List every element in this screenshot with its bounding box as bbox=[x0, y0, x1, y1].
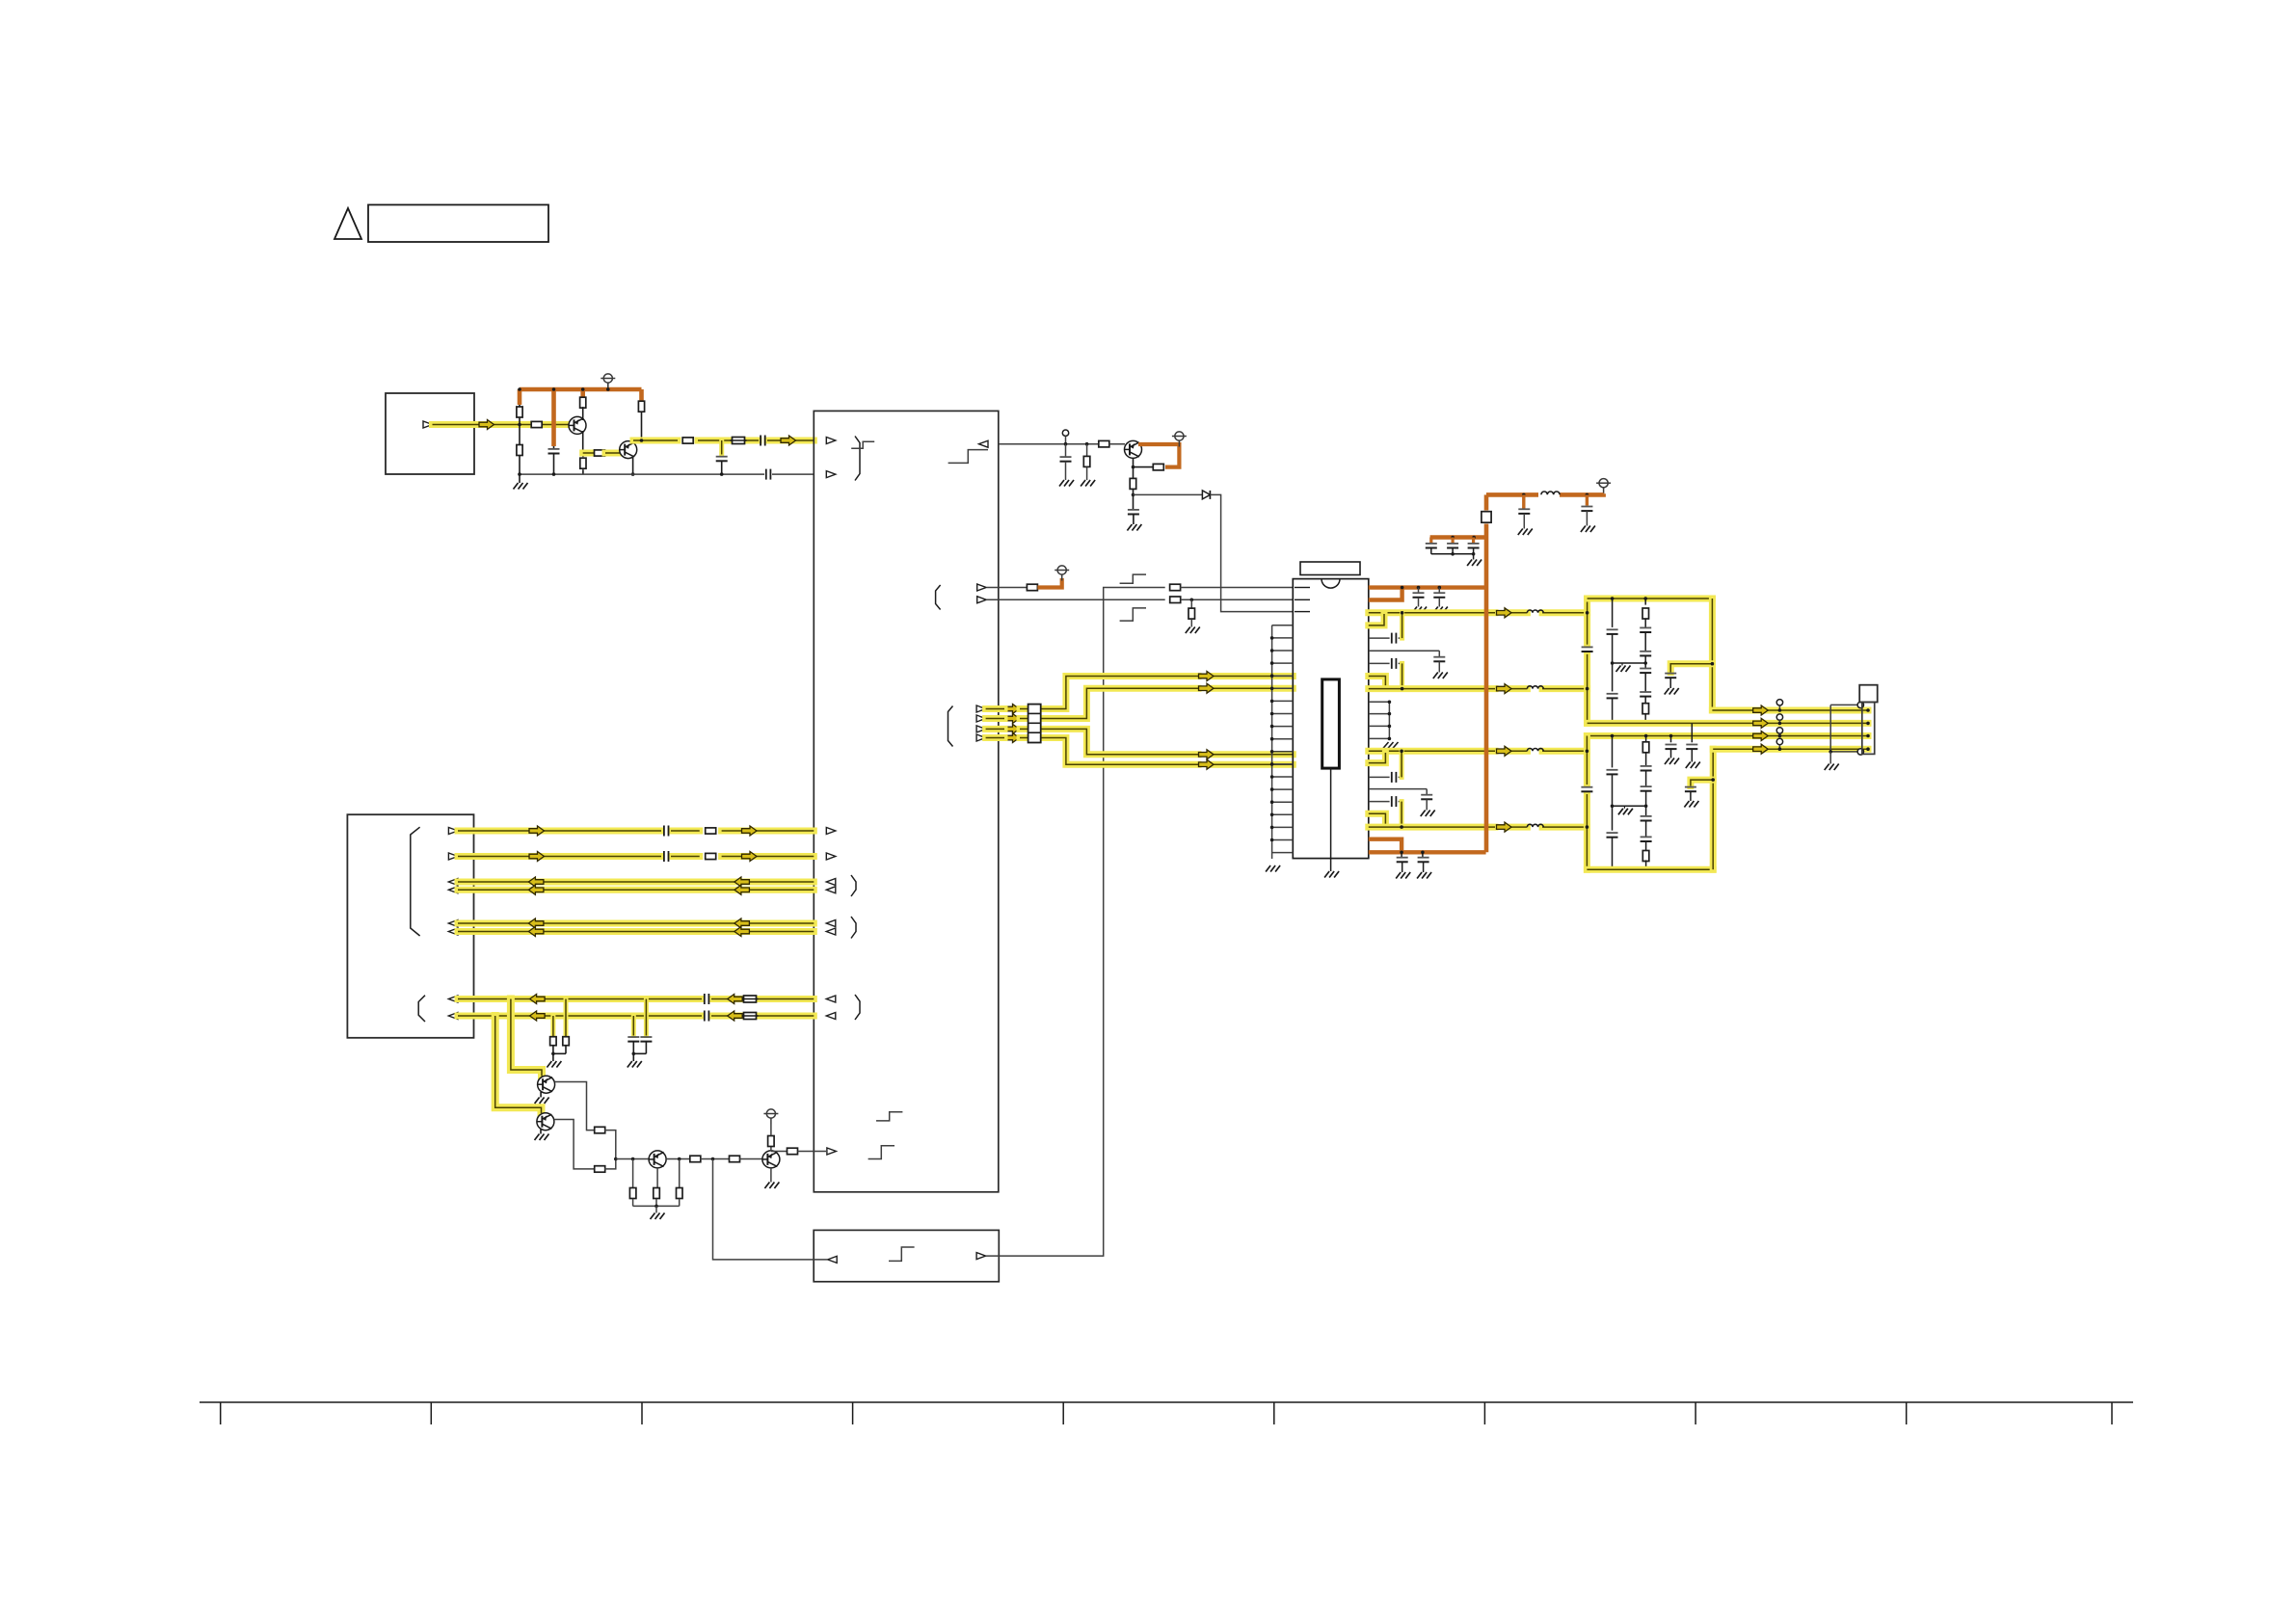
signal-flow arrow row3 a bbox=[528, 877, 544, 887]
node: row7 taps bbox=[509, 998, 648, 1001]
wire: M1 ctrl to Q3 base bbox=[999, 443, 1099, 445]
capacitor C (line2 shunt) bbox=[1686, 723, 1700, 768]
wire: Q2 emitter to ground bus bbox=[632, 458, 634, 474]
power flag P3 (Q3) bbox=[1172, 432, 1187, 447]
signal-flow arrow d4 at IC bbox=[1199, 759, 1215, 769]
signal-flow arrow row6 b bbox=[734, 927, 750, 937]
wire: J1 row7 (yellow) bbox=[458, 996, 814, 1002]
wire: detector to diode bbox=[1134, 493, 1203, 495]
pin: M1 d2 bbox=[976, 715, 986, 722]
signal-flow arrow out1 bbox=[1497, 608, 1512, 618]
capacitor C (row8 shunt) bbox=[627, 1016, 639, 1053]
ground: ctrl shunt cap bbox=[1059, 480, 1074, 487]
terminal circles J2 bbox=[1857, 702, 1863, 755]
IC right shorted pin group + bus bbox=[1369, 701, 1391, 741]
resistor R2 (pull-down) bbox=[517, 425, 522, 475]
ground: resistor bus bbox=[651, 1206, 665, 1219]
pin: M1 bottom input bbox=[827, 1148, 837, 1155]
jumper circle line3 bbox=[1776, 728, 1782, 738]
output line1 (yellow) bbox=[1712, 707, 1868, 714]
signal-flow arrow row4 b bbox=[734, 885, 750, 894]
resistor R (M1 input series) bbox=[788, 1148, 798, 1155]
wire: row8 tap to Q5 (yellow) bbox=[495, 1016, 542, 1113]
power flag P4 (status1) bbox=[1055, 566, 1069, 581]
signal-flow arrow d1 at IC bbox=[1199, 672, 1215, 681]
note box (blank label) bbox=[368, 205, 548, 243]
jumper circle line1 bbox=[1776, 700, 1782, 712]
wire: Q6 collector right bbox=[666, 1158, 690, 1160]
resistor R (row8 shunt) bbox=[550, 1016, 557, 1053]
waveform step (status2) bbox=[1120, 608, 1146, 621]
wire: J1 row5 (yellow) bbox=[458, 920, 814, 927]
resistor R (Q3 feedback) bbox=[1134, 464, 1164, 470]
wire: IC pV- bottom (orange) bbox=[1369, 850, 1486, 854]
power flag P5 (main rail) bbox=[1596, 479, 1611, 494]
capacitor C (V- b) bbox=[1417, 852, 1431, 878]
capacitor C (series) row1 bbox=[664, 826, 669, 837]
capacitor C (line3 shunt) bbox=[1665, 736, 1679, 765]
ferrite bead row7 bbox=[742, 996, 759, 1002]
pin: J1 in3 bbox=[448, 920, 458, 927]
wire: Q3 collector down bbox=[1133, 458, 1135, 478]
bracket ) rows5-6 M1 bbox=[851, 917, 856, 939]
resistor R (Q3 collector) bbox=[1130, 478, 1136, 494]
bracket ) rows3-4 M1 bbox=[851, 875, 856, 896]
waveform step (status1) bbox=[1120, 574, 1146, 583]
capacitor C (rail b) bbox=[1581, 494, 1595, 532]
wire: IC p8 L to out2 (yellow) bbox=[1369, 677, 1386, 688]
transistor Q5 bbox=[537, 1113, 554, 1131]
wire: d1 to IC (yellow) bbox=[986, 677, 1294, 709]
capacitor C4 (ground-return series) bbox=[766, 469, 771, 480]
capacitor C (V- a) bbox=[1396, 852, 1410, 878]
signal-flow arrow d2 at IC bbox=[1199, 683, 1215, 693]
resistor R (interstage a) bbox=[690, 1156, 701, 1162]
wire: IC p2 V+ L (orange) bbox=[1369, 589, 1402, 600]
node: branch taps bbox=[1451, 536, 1476, 540]
pin: M1 ctrl out (row 460.7) bbox=[979, 440, 989, 447]
IC U1 body bbox=[1293, 579, 1369, 859]
pin: M1 status1 (row 609.5) bbox=[977, 584, 987, 591]
pin: M1 row1 in bbox=[826, 828, 836, 835]
signal-flow arrow line2 bbox=[1753, 718, 1769, 728]
resistor R (Q7 collector) bbox=[768, 1125, 775, 1152]
signal-flow arrow on amp output bbox=[781, 436, 796, 445]
signal-flow arrow out4 bbox=[1497, 822, 1512, 832]
power flag P2 (Q7 rail) bbox=[763, 1109, 778, 1125]
wire: status1 orange tail bbox=[1037, 578, 1061, 588]
resistor R (series) row1 bbox=[706, 828, 716, 834]
wire: filter1 mid link + ground bbox=[1613, 661, 1647, 672]
pin: J1 out1 bbox=[448, 828, 458, 835]
signal-flow arrow line3 bbox=[1753, 732, 1769, 741]
wire: Q5 path to sum node bbox=[604, 1159, 616, 1169]
filter1 inner vertical B bbox=[1640, 599, 1651, 723]
connector J2 shield bracket bbox=[1829, 705, 1857, 753]
wire: interstage bbox=[700, 1158, 730, 1160]
wire: amp output (yellow) bbox=[633, 438, 814, 444]
resistor R (Q3 base) bbox=[1099, 440, 1125, 447]
node: rail-R1 bbox=[518, 387, 609, 391]
resistor R5 (Q1 emitter) bbox=[580, 453, 586, 474]
resistor R (status2) bbox=[1170, 597, 1294, 603]
filter1 bottom edge / line2 (yellow) bbox=[1588, 720, 1868, 727]
signal-flow arrow d4 bbox=[1004, 733, 1020, 743]
bracket ) at M1 rows1-2 bbox=[855, 437, 860, 481]
capacitor C (series) row2 bbox=[664, 851, 669, 862]
pin: M1 row2 in bbox=[826, 853, 836, 860]
signal-flow arrow out2 bbox=[1497, 684, 1512, 694]
capacitor C (row7 shunt) bbox=[640, 999, 652, 1054]
capacitor C (branch 1) bbox=[1426, 538, 1437, 554]
pin: J1 out2 bbox=[448, 853, 458, 860]
resistor R8 (output series) bbox=[682, 438, 693, 443]
signal-flow arrow row4 a bbox=[528, 885, 544, 894]
wire: d2 to IC (yellow) bbox=[986, 688, 1294, 718]
wire: IC p + cap to out4 bbox=[1369, 796, 1402, 826]
wire: J1 row4 (yellow) bbox=[458, 887, 814, 893]
ground: J2 shield bbox=[1825, 752, 1839, 770]
node: output filter tap bbox=[720, 439, 724, 442]
capacitor C (branch 2) bbox=[1447, 538, 1458, 554]
wire: J1 row1 to M1 (yellow) bbox=[458, 828, 814, 835]
wire+ground rows7/8 resistors bbox=[547, 1052, 566, 1068]
bracket ( M1 status pins bbox=[936, 585, 941, 610]
node: filter1 joints bbox=[1586, 597, 1694, 725]
capacitor C (series) row8 bbox=[705, 1011, 709, 1022]
wire: M1 status2 to IC bbox=[987, 599, 1165, 600]
node: Q1 emitter bias bbox=[581, 451, 585, 455]
pin: M1 d3 bbox=[976, 726, 986, 732]
wire: IC out3 (yellow) bbox=[1369, 748, 1588, 755]
wire: IC out4 (yellow) bbox=[1369, 824, 1588, 831]
wire: IC out1 (yellow) bbox=[1369, 609, 1588, 616]
node: filter1 mid bbox=[1611, 661, 1615, 665]
resistor R (shunt1) bbox=[629, 1159, 636, 1207]
pin: M1 d1 bbox=[976, 705, 986, 712]
signal-flow arrow row3 b bbox=[734, 877, 750, 887]
signal-flow arrow row8 a bbox=[530, 1011, 546, 1021]
node: Q2 emitter-gnd bbox=[631, 472, 635, 476]
pin: M1 row8 bbox=[826, 1013, 836, 1020]
wire: d3 to IC (yellow) bbox=[986, 729, 1294, 754]
wire: block A out to Q1 base (yellow) bbox=[433, 421, 571, 428]
capacitor C1 (rail decoupling) bbox=[548, 446, 560, 474]
IC U1 pin-1 notch bbox=[1322, 579, 1340, 589]
node: p5 joins out1 bbox=[1401, 611, 1404, 615]
wire: Q3 emitter orange loop bbox=[1138, 444, 1179, 467]
resistor R (interstage b) bbox=[730, 1156, 740, 1162]
inductor L4 (out4) bbox=[1527, 824, 1543, 827]
wire: J1 row8 (yellow) bbox=[458, 1013, 814, 1020]
waveform step symbol inside M1 top-left bbox=[851, 441, 874, 448]
node: res tap bbox=[1085, 442, 1089, 446]
resistor R (ctrl shunt) bbox=[1081, 444, 1095, 487]
signal-flow arrow row5 a bbox=[528, 918, 544, 928]
node: filter2 joints bbox=[1586, 734, 1673, 871]
sync box M2 (bottom) bbox=[814, 1230, 999, 1281]
bracket ( tall inside J1 bbox=[411, 827, 420, 936]
signal-flow arrow row2 left bbox=[529, 852, 545, 862]
wire: resistor bottom bus bbox=[633, 1205, 680, 1209]
wire: IC p L to out4 (yellow) bbox=[1369, 813, 1386, 826]
wire: filter2 mid link + ground bbox=[1613, 805, 1648, 815]
capacitor C (rail a) bbox=[1518, 494, 1533, 535]
signal-flow arrow row1 right bbox=[742, 826, 758, 836]
filter2 inner vertical B bbox=[1641, 736, 1652, 870]
wire: to Q7 base bbox=[739, 1158, 762, 1160]
node: filter2 branch bbox=[1711, 778, 1715, 782]
wire: Q4 collector to merge bbox=[555, 1082, 596, 1131]
wire: branch cap bus + ground bbox=[1431, 552, 1482, 566]
resistor R1 (pull-up) bbox=[517, 389, 522, 425]
signal-flow arrow row2 right bbox=[742, 852, 758, 862]
IC U1 internal stubs bbox=[1295, 588, 1310, 612]
ferrite bead FB1 on amp output bbox=[731, 438, 747, 444]
pin: M1 row5 bbox=[826, 920, 836, 927]
resistor R3 (base series) bbox=[531, 421, 542, 427]
output line4 (yellow) bbox=[1713, 746, 1868, 753]
wire: row7 tap to Q4 (yellow) bbox=[511, 999, 542, 1077]
signal-flow arrow row7 a bbox=[530, 995, 546, 1004]
filter1 left edge (yellow) bbox=[1584, 599, 1590, 723]
pin: J1 in6 bbox=[448, 1013, 458, 1020]
module box M1 bbox=[814, 411, 999, 1191]
pin: M1 row3 bbox=[826, 879, 836, 886]
wire: IC pV- L (orange) bbox=[1369, 839, 1402, 851]
transistor Q2 bbox=[620, 441, 637, 459]
filter1 right edge (yellow) bbox=[1709, 599, 1716, 710]
wire: J1 row3 (yellow) bbox=[458, 879, 814, 886]
pin: J1 in1 bbox=[448, 879, 458, 886]
wire: IC p7 + cap to out2 bbox=[1369, 658, 1402, 687]
resistor R (IC row1 series) bbox=[1170, 584, 1181, 591]
pin: M2 left bbox=[828, 1256, 838, 1263]
wire: Q5 collector to merge bbox=[554, 1120, 595, 1169]
resistor R (status2 shunt) bbox=[1186, 599, 1200, 633]
resistor R (row7 shunt) bbox=[563, 999, 570, 1054]
node: J2 pin dots bbox=[1866, 708, 1870, 751]
bracket ) rows7-8 M1 bbox=[855, 995, 860, 1020]
capacitor C (branch 3) bbox=[1468, 538, 1480, 554]
capacitor C (series) row7 bbox=[705, 994, 709, 1004]
resistor array RA1 bbox=[1028, 705, 1041, 743]
bracket ( M1 data pins bbox=[948, 706, 953, 747]
wire: resonator to ground bbox=[1324, 768, 1339, 877]
filter2 inner vertical A bbox=[1607, 736, 1618, 870]
wire: Q1 emitter to bias node bbox=[582, 431, 584, 453]
inductor L3 (out3) bbox=[1527, 749, 1543, 752]
node: p1 net joints bbox=[1401, 586, 1441, 590]
IC U1 internal element (resonator) bbox=[1322, 679, 1340, 768]
transistor Q7 bbox=[762, 1151, 780, 1168]
wire: diode to IC row3 bbox=[1210, 494, 1293, 611]
node: Q3 collector node bbox=[1132, 466, 1135, 469]
ground: Q5 emitter bbox=[535, 1130, 549, 1141]
node: Q2 collector out bbox=[640, 439, 644, 442]
node: row8 taps bbox=[494, 1014, 635, 1018]
node: filter1 branch bbox=[1711, 662, 1715, 666]
pin: M1 row6 bbox=[826, 928, 836, 935]
connector J2 body bbox=[1862, 703, 1875, 755]
warning triangle symbol bbox=[334, 208, 361, 239]
wire: rail top (orange) bbox=[1486, 493, 1604, 494]
resistor R (Q5 path) bbox=[595, 1166, 605, 1173]
signal-flow arrow line4 bbox=[1753, 744, 1769, 754]
ground: Q7 emitter bbox=[764, 1168, 779, 1188]
node: feedback tap bbox=[711, 1157, 715, 1161]
signal-flow arrow d1 bbox=[1004, 705, 1020, 714]
wire: to IC pin row1 bbox=[1180, 587, 1293, 589]
IC U1 left ground bus + pin stubs bbox=[1266, 625, 1293, 872]
node: R1/R2 divider tap bbox=[518, 423, 521, 427]
wire: IC p L to out3 (yellow) bbox=[1369, 753, 1386, 763]
node: detector node bbox=[1132, 493, 1135, 497]
pin: M1 in2 (amp return) bbox=[826, 471, 836, 478]
pin: M1 row4 bbox=[826, 887, 836, 893]
node: status2 shunt tap bbox=[1190, 599, 1194, 602]
wire: J1 row6 (yellow) bbox=[458, 928, 814, 935]
pin: M1 status2 (row 622.3) bbox=[977, 597, 987, 603]
ground: Q4 emitter bbox=[535, 1092, 549, 1104]
connector box J1 (left) bbox=[347, 814, 473, 1038]
transistor Q3 (PNP) bbox=[1125, 440, 1142, 458]
capacitor C2 (output shunt) bbox=[716, 440, 728, 474]
wire: sum node to Q6 bbox=[616, 1158, 649, 1160]
wire: J1 row2 to M1 (yellow) bbox=[458, 853, 814, 860]
wire: M1 status1 bbox=[987, 587, 1028, 589]
diode D1 bbox=[1202, 491, 1210, 499]
capacitor C (filter1 left series) bbox=[1582, 647, 1593, 652]
filter2 bottom edge (yellow) bbox=[1587, 866, 1713, 873]
capacitor C (filter2 left series) bbox=[1581, 787, 1592, 792]
wire: IC p4 L to out1 (yellow) bbox=[1369, 614, 1384, 625]
node: gnd bus joints bbox=[518, 472, 723, 476]
capacitor C (filter2 branch) bbox=[1684, 787, 1698, 808]
node: V- joints bbox=[1400, 851, 1424, 855]
wire: amp ground return bus bbox=[520, 473, 814, 475]
wire: IC out2 (yellow) bbox=[1369, 685, 1588, 692]
wire: IC p shunt cap b bbox=[1369, 789, 1435, 816]
wire: into M1 bbox=[798, 1151, 827, 1153]
connector J2 head bbox=[1859, 685, 1878, 703]
resistor R (Q4 path) bbox=[595, 1127, 605, 1133]
pin: M1 row7 bbox=[826, 996, 836, 1002]
ground: amp bus bbox=[514, 474, 528, 489]
wire: IC p1 V+ (orange) bbox=[1369, 585, 1486, 589]
node: filter2 mid bbox=[1611, 805, 1615, 809]
wire: feedback tap down to M2 bbox=[713, 1159, 828, 1260]
signal-flow arrow row1 left bbox=[529, 826, 545, 836]
ground: shorted group (slant) bbox=[1382, 742, 1399, 750]
signal-flow arrow on source wire bbox=[479, 420, 494, 430]
pin: J1 in5 bbox=[448, 996, 458, 1002]
inductor L5 (rail) bbox=[1538, 489, 1560, 500]
waveform step near M1 ctrl bbox=[948, 450, 988, 464]
node: R-shunt1 tap bbox=[631, 1157, 635, 1161]
node: cap joins out3 bbox=[1400, 750, 1403, 754]
filter1 inner vertical A bbox=[1607, 599, 1618, 723]
capacitor C (detector) bbox=[1127, 494, 1141, 530]
node: rail cap taps bbox=[1522, 493, 1589, 497]
filter2 right edge (yellow) bbox=[1710, 749, 1717, 869]
pin: J1 in4 bbox=[448, 928, 458, 935]
node: cap tap bbox=[1064, 442, 1068, 446]
signal-flow arrow row6 a bbox=[528, 927, 544, 937]
waveform step inside M1 (a) bbox=[876, 1112, 902, 1121]
jumper circle line2 bbox=[1776, 714, 1782, 725]
filter2 branch (yellow) bbox=[1691, 780, 1713, 785]
wire+ground rows7/8 caps bbox=[627, 1052, 647, 1068]
signal-flow arrow d3 bbox=[1004, 724, 1020, 733]
wire: IC p + cap to out3 bbox=[1369, 753, 1402, 783]
resistor R (status1) bbox=[1027, 584, 1037, 591]
waveform step inside M2 bbox=[889, 1247, 915, 1261]
wire: d4 to IC (yellow) bbox=[986, 738, 1294, 765]
resistor R7 (Q2 collector load) bbox=[638, 401, 644, 440]
wire: IC p5 + cap to out1 bbox=[1369, 614, 1402, 644]
capacitor C (V+ decouple b) bbox=[1433, 588, 1448, 613]
signal-flow arrow row8 b bbox=[728, 1011, 743, 1021]
wire: Q7 collector to M1 input bbox=[771, 1151, 788, 1153]
signal-flow arrow out3 bbox=[1497, 746, 1512, 756]
pin: block A output bbox=[423, 421, 433, 428]
resistor R (shunt2) bbox=[677, 1159, 683, 1207]
transistor Q6 bbox=[649, 1151, 666, 1168]
filter2 top edge / line3 (yellow) bbox=[1587, 732, 1868, 739]
signal-flow arrow row5 b bbox=[734, 918, 750, 928]
filter1 top edge (yellow) bbox=[1588, 596, 1713, 602]
fold ruler line bbox=[200, 1402, 2133, 1424]
terminal: open circle test point bbox=[1062, 430, 1068, 444]
filter1 branch (yellow) bbox=[1670, 664, 1712, 673]
block A (signal source box) bbox=[386, 393, 474, 474]
wire: M2 right up to IC row1 bbox=[986, 588, 1165, 1257]
node: cap joins out4 bbox=[1400, 825, 1403, 829]
wire: IC p6 shunt cap bbox=[1369, 651, 1448, 678]
ferrite bead FB (rail) bbox=[1482, 512, 1491, 523]
capacitor C (ctrl shunt) bbox=[1060, 444, 1072, 480]
inductor L2 (out2) bbox=[1527, 686, 1543, 689]
jumper circle line4 bbox=[1776, 738, 1782, 751]
signal-flow arrow line1 bbox=[1753, 705, 1769, 715]
pin: M1 in1 (amp signal) bbox=[826, 438, 836, 444]
resistor R (series) row2 bbox=[706, 853, 716, 859]
bracket ( small inside J1 bbox=[418, 996, 425, 1022]
pin: M2 right bbox=[976, 1253, 986, 1260]
wire: Q4 path to sum node bbox=[604, 1131, 616, 1159]
resistor R6 (Q2 base series) bbox=[583, 450, 620, 456]
transistor Q1 bbox=[569, 416, 586, 434]
filter2 left edge (yellow) bbox=[1584, 736, 1590, 870]
signal-flow arrow d2 bbox=[1004, 714, 1020, 724]
capacitor C3 (output coupling) bbox=[761, 436, 765, 446]
wire: amp V+ rail (orange) bbox=[520, 389, 642, 446]
pin: J1 in2 bbox=[448, 887, 458, 893]
transistor Q4 bbox=[538, 1076, 555, 1093]
ferrite bead row8 bbox=[742, 1013, 759, 1020]
waveform step inside M1 (b) bbox=[868, 1146, 894, 1159]
IC U1 label box bbox=[1300, 562, 1360, 575]
node: sum node bbox=[614, 1157, 618, 1161]
pin: M1 d4 bbox=[976, 734, 986, 741]
capacitor C (filter1 branch) bbox=[1665, 674, 1679, 695]
node: p7 joins out2 bbox=[1401, 687, 1404, 691]
signal-flow arrow row7 b bbox=[728, 995, 743, 1004]
resistor R4 (Q1 collector load) bbox=[580, 397, 586, 417]
node: R-shunt2 tap bbox=[678, 1157, 681, 1161]
wire: rail branch (orange) bbox=[1430, 535, 1486, 539]
